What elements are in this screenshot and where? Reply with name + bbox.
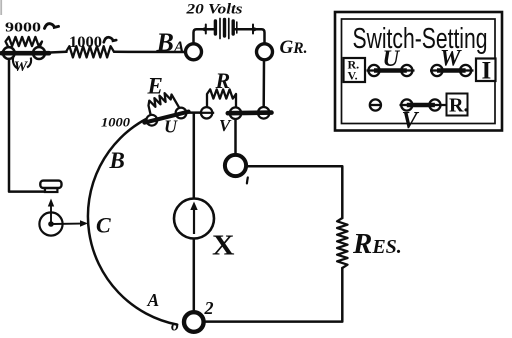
post U right <box>176 108 187 119</box>
svg-text:V: V <box>219 116 232 135</box>
detector X circle <box>174 199 214 239</box>
resistor E <box>149 93 180 115</box>
binding post W left <box>3 47 15 59</box>
motion arrow right to C <box>53 223 81 225</box>
box R.V. <box>344 58 366 82</box>
post pair W <box>430 65 474 76</box>
svg-text:2: 2 <box>204 298 214 318</box>
wire: V post down to terminal 1 <box>234 119 237 155</box>
svg-text:9000: 9000 <box>5 20 41 35</box>
shorting bar W <box>2 51 50 56</box>
shorting bar U <box>145 112 189 123</box>
wire: junction down to detector X <box>193 113 196 199</box>
post pair U <box>367 65 415 76</box>
terminal 1 <box>225 155 246 176</box>
wire: U switch to R post row, junction node <box>185 111 201 114</box>
wire: terminal 1 to RES top <box>247 166 343 218</box>
terminal GR <box>257 44 273 60</box>
svg-text:U: U <box>164 117 178 137</box>
wire: detector X to terminal 2 <box>193 239 196 312</box>
battery cells 20 Volts <box>215 19 236 39</box>
post U left <box>146 115 157 126</box>
svg-text:W: W <box>440 46 462 71</box>
wire: W shunt to 1000 ohm resistor <box>44 52 67 53</box>
motion arrow up <box>50 205 52 223</box>
bar U <box>374 68 407 72</box>
switch-setting outer frame <box>335 12 502 131</box>
resistor 9000 ohm (shunt over W posts) <box>6 37 43 49</box>
shorting bar V <box>228 110 272 115</box>
svg-text:o: o <box>171 318 179 335</box>
resistor RES <box>337 218 347 268</box>
binding post W right <box>33 47 45 59</box>
bar W <box>437 68 466 72</box>
svg-text:20 Volts: 20 Volts <box>185 2 243 18</box>
svg-text:V: V <box>402 108 420 134</box>
wire: battery loop from BA up to GR <box>194 29 214 43</box>
single post row2 <box>369 99 382 110</box>
slide wire arc B-C-A <box>88 119 177 325</box>
svg-text:C: C <box>96 213 111 238</box>
terminal 2 <box>184 312 204 332</box>
svg-text:B: B <box>109 148 125 173</box>
switch-setting inner frame <box>342 19 496 124</box>
svg-text:R: R <box>215 68 231 93</box>
svg-text:1000: 1000 <box>101 116 131 130</box>
wire: RES bottom to terminal 2 <box>206 268 343 322</box>
svg-text:E: E <box>147 74 163 99</box>
post V middle <box>230 107 242 119</box>
resistor 1000 ohm <box>66 46 114 57</box>
svg-text:Switch-Setting: Switch-Setting <box>353 23 488 55</box>
bar V <box>407 103 435 107</box>
svg-text:1000: 1000 <box>69 34 102 51</box>
box R. <box>447 94 468 116</box>
resistor R <box>207 89 236 108</box>
clip mark left of battery <box>199 25 206 34</box>
svg-text:R.: R. <box>449 95 468 117</box>
binding post row: post left of R <box>199 107 214 118</box>
post right under GR <box>258 107 270 119</box>
clip mark right of battery <box>253 25 260 34</box>
box I <box>476 59 496 82</box>
svg-text:A: A <box>147 290 160 310</box>
label 1 <box>246 178 249 184</box>
svg-text:X: X <box>212 231 235 262</box>
svg-text:I: I <box>482 58 492 85</box>
scan artifact tick top-left <box>0 0 2 15</box>
terminal BA <box>186 44 202 60</box>
svg-text:U: U <box>383 46 401 71</box>
contact maker circle <box>39 212 62 235</box>
svg-text:V.: V. <box>348 69 358 83</box>
wire: GR down to switch row <box>262 60 265 107</box>
detector needle <box>193 208 195 235</box>
post pair V <box>400 99 446 110</box>
wire: left vertical from W shunt down <box>9 56 45 192</box>
wire: 1000 ohm to BA terminal <box>114 51 186 54</box>
svg-text:GR.: GR. <box>280 37 308 58</box>
contact key pad <box>45 188 57 192</box>
